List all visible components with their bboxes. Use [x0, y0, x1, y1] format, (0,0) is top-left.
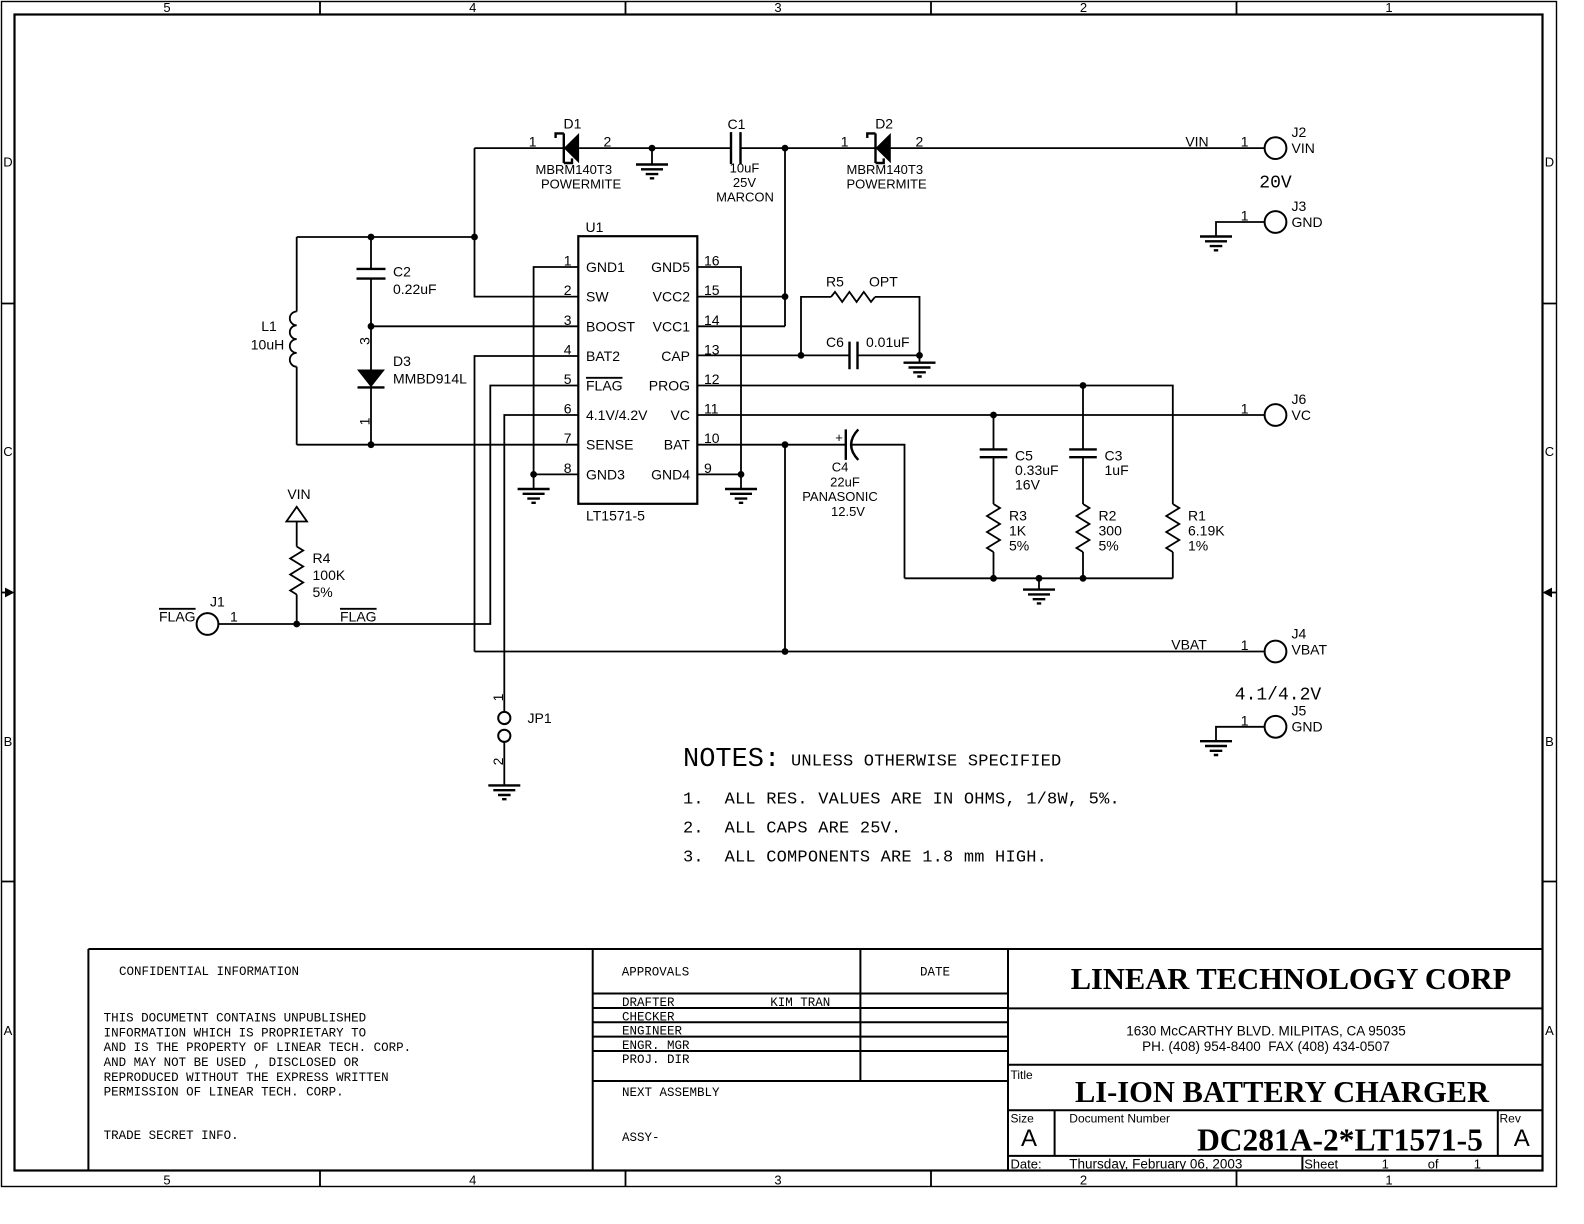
svg-text:4: 4 [469, 0, 476, 15]
svg-text:4: 4 [469, 1173, 476, 1188]
svg-text:Rev: Rev [1500, 1112, 1521, 1126]
svg-text:Date:: Date: [1011, 1156, 1042, 1171]
svg-text:MBRM140T3: MBRM140T3 [847, 162, 924, 177]
power port VIN [286, 486, 310, 547]
svg-text:J5: J5 [1292, 703, 1307, 719]
connector J6 [1241, 391, 1311, 426]
wire JP1 to ground [503, 742, 505, 786]
svg-text:Document Number: Document Number [1069, 1112, 1170, 1126]
svg-text:C: C [1545, 444, 1554, 459]
svg-text:6.19K: 6.19K [1188, 523, 1225, 539]
jumper JP1 [490, 693, 552, 765]
svg-text:DATE: DATE [920, 966, 950, 980]
svg-text:NEXT ASSEMBLY: NEXT ASSEMBLY [622, 1086, 720, 1100]
wire top rail left drop to SW [475, 148, 579, 297]
svg-text:BAT: BAT [664, 437, 691, 453]
svg-text:GND4: GND4 [651, 466, 690, 482]
svg-text:2: 2 [1080, 1173, 1087, 1188]
capacitor C6 [826, 334, 910, 369]
svg-text:TRADE SECRET INFO.: TRADE SECRET INFO. [104, 1129, 239, 1143]
svg-text:1uF: 1uF [1105, 462, 1129, 478]
svg-text:VC: VC [671, 407, 690, 423]
connector J1 [159, 594, 238, 635]
wire VBAT line to J4 [475, 651, 1266, 653]
svg-text:VCC1: VCC1 [653, 318, 691, 334]
svg-text:25V: 25V [733, 175, 756, 190]
svg-text:1: 1 [1241, 637, 1249, 653]
svg-text:2: 2 [604, 134, 612, 150]
svg-text:BOOST: BOOST [586, 318, 635, 334]
svg-text:AND IS THE PROPERTY OF LINEAR: AND IS THE PROPERTY OF LINEAR TECH. CORP… [104, 1041, 412, 1055]
node junction C3 top on PROG [1080, 382, 1087, 389]
svg-text:MMBD914L: MMBD914L [393, 371, 467, 387]
svg-text:VCC2: VCC2 [653, 289, 691, 305]
svg-text:VIN: VIN [1292, 140, 1315, 156]
svg-text:J2: J2 [1292, 124, 1307, 140]
svg-text:1: 1 [230, 609, 238, 625]
svg-text:1: 1 [490, 693, 506, 701]
wire VBAT drop [784, 445, 786, 652]
approvals table text [622, 966, 950, 1146]
diode D2 [841, 116, 927, 192]
svg-text:POWERMITE: POWERMITE [541, 177, 621, 192]
svg-text:PERMISSION OF LINEAR TECH. COR: PERMISSION OF LINEAR TECH. CORP. [104, 1086, 344, 1100]
svg-text:16V: 16V [1015, 477, 1041, 493]
ground at top rail [636, 148, 668, 178]
svg-text:VBAT: VBAT [1292, 641, 1328, 657]
svg-text:INFORMATION WHICH IS PROPRIETA: INFORMATION WHICH IS PROPRIETARY TO [104, 1026, 367, 1040]
svg-text:PROJ. DIR: PROJ. DIR [622, 1053, 690, 1067]
wire pin16 GND5 net [697, 267, 741, 474]
svg-text:MARCON: MARCON [716, 190, 774, 205]
svg-text:GND: GND [1292, 214, 1323, 230]
svg-text:FLAG: FLAG [159, 609, 196, 625]
node junction GND4 [738, 471, 745, 478]
ground at divider rail [1023, 578, 1055, 603]
svg-text:KIM TRAN: KIM TRAN [770, 996, 830, 1010]
node junction VBAT drop [782, 648, 789, 655]
svg-text:J1: J1 [210, 594, 225, 610]
svg-text:2: 2 [916, 134, 924, 150]
svg-text:R3: R3 [1009, 508, 1027, 524]
resistor R4 [290, 547, 346, 625]
node junction R5/C6 left [798, 352, 805, 359]
svg-text:2. ALL CAPS ARE 25V.: 2. ALL CAPS ARE 25V. [683, 820, 901, 839]
svg-text:SW: SW [586, 289, 609, 305]
svg-text:PROG: PROG [649, 378, 690, 394]
svg-text:of: of [1428, 1156, 1439, 1171]
svg-text:BAT2: BAT2 [586, 348, 620, 364]
svg-text:R4: R4 [313, 550, 331, 566]
svg-text:THIS DOCUMETNT CONTAINS UNPUBL: THIS DOCUMETNT CONTAINS UNPUBLISHED [104, 1012, 367, 1026]
svg-text:ASSY-: ASSY- [622, 1131, 660, 1145]
capacitor C3 [1069, 386, 1128, 505]
svg-text:R2: R2 [1099, 508, 1117, 524]
capacitor C2 [357, 237, 437, 370]
svg-text:1K: 1K [1009, 523, 1027, 539]
capacitor C4 [802, 429, 878, 518]
svg-text:1%: 1% [1188, 538, 1208, 554]
svg-text:D2: D2 [875, 116, 893, 132]
svg-text:R5: R5 [826, 274, 844, 290]
svg-text:D1: D1 [564, 116, 582, 132]
svg-text:OPT: OPT [869, 274, 898, 290]
svg-text:VIN: VIN [1185, 134, 1208, 150]
ground at U1 left [518, 474, 550, 502]
wire VCC drop to pins 15/14 [697, 148, 785, 326]
svg-text:FLAG: FLAG [586, 378, 623, 394]
svg-text:FLAG: FLAG [340, 609, 377, 625]
capacitor C1 [716, 116, 774, 205]
resistor R3 [987, 504, 1029, 578]
wire ground rail bottom [905, 577, 1173, 579]
svg-text:ENGINEER: ENGINEER [622, 1025, 683, 1039]
node junction VCC2 pin15 [782, 293, 789, 300]
svg-text:JP1: JP1 [528, 710, 552, 726]
svg-text:300: 300 [1099, 523, 1123, 539]
resistor R5 [801, 274, 920, 356]
connector J4 [1241, 626, 1328, 663]
svg-text:J6: J6 [1292, 391, 1307, 407]
wire VIN top rail [475, 147, 1266, 149]
svg-text:1: 1 [529, 134, 537, 150]
svg-text:1: 1 [1385, 0, 1392, 15]
svg-text:LT1571-5: LT1571-5 [586, 508, 645, 524]
svg-text:Title: Title [1011, 1068, 1034, 1082]
capacitor C5 [980, 415, 1059, 504]
svg-text:5%: 5% [1009, 538, 1029, 554]
svg-text:10uH: 10uH [251, 337, 284, 353]
svg-text:APPROVALS: APPROVALS [622, 966, 690, 980]
svg-text:3: 3 [357, 337, 373, 345]
svg-text:0.01uF: 0.01uF [866, 334, 910, 350]
node junction D3 bottom on SENSE [368, 441, 375, 448]
svg-text:U1: U1 [586, 219, 604, 235]
svg-text:2: 2 [564, 282, 572, 298]
svg-text:A: A [1021, 1125, 1037, 1152]
svg-text:C6: C6 [826, 334, 844, 350]
wire J5 ground stub [1216, 727, 1265, 741]
wire branch to C2/L1 [297, 236, 475, 238]
svg-text:C2: C2 [393, 264, 411, 280]
svg-text:ENGR. MGR: ENGR. MGR [622, 1039, 690, 1053]
svg-text:1: 1 [1241, 401, 1249, 417]
wire pin4 BAT2 net [475, 356, 579, 652]
node junction R4 bottom on FLAG wire [293, 621, 300, 628]
wire J3 ground stub [1216, 222, 1265, 237]
svg-text:LI-ION BATTERY CHARGER: LI-ION BATTERY CHARGER [1075, 1075, 1490, 1109]
svg-text:GND: GND [1292, 718, 1323, 734]
svg-text:3: 3 [774, 1173, 781, 1188]
svg-text:Thursday, February 06, 2003: Thursday, February 06, 2003 [1069, 1156, 1242, 1171]
svg-text:B: B [4, 734, 13, 749]
confidential information text [104, 965, 412, 1143]
svg-text:C: C [3, 444, 12, 459]
node junction BAT/VBAT [782, 441, 789, 448]
svg-text:1: 1 [841, 134, 849, 150]
svg-text:1630 McCARTHY BLVD. MILPITAS,: 1630 McCARTHY BLVD. MILPITAS, CA 95035 [1126, 1024, 1406, 1039]
svg-text:R1: R1 [1188, 508, 1206, 524]
svg-text:SENSE: SENSE [586, 437, 633, 453]
ground at JP1 [488, 785, 520, 799]
node junction R2 bottom [1080, 575, 1087, 582]
svg-text:GND5: GND5 [651, 259, 690, 275]
wire pin6 4.1V net to JP1 [504, 415, 578, 712]
inductor L1 [251, 237, 297, 445]
wire pin5 FLAG net [218, 386, 579, 625]
svg-text:DRAFTER: DRAFTER [622, 996, 675, 1010]
svg-text:100K: 100K [313, 567, 346, 583]
svg-text:5: 5 [163, 0, 170, 15]
svg-text:A: A [1545, 1023, 1554, 1038]
wire pin3 BOOST [371, 325, 578, 327]
node junction C2 top [368, 234, 375, 241]
svg-text:D: D [1545, 155, 1554, 170]
svg-text:MBRM140T3: MBRM140T3 [536, 162, 613, 177]
connector J3 [1241, 198, 1323, 233]
svg-text:4.1V/4.2V: 4.1V/4.2V [586, 407, 648, 423]
node junction BOOST tap [368, 323, 375, 330]
svg-text:J4: J4 [1292, 626, 1307, 642]
wire pin10 BAT [697, 444, 846, 446]
resistor R1 [1166, 504, 1225, 578]
IC U1 LT1571-5 [564, 219, 720, 524]
svg-text:0.22uF: 0.22uF [393, 281, 437, 297]
svg-text:1: 1 [1385, 1173, 1392, 1188]
net label FLAG mid-wire [340, 609, 377, 625]
svg-text:LINEAR TECHNOLOGY CORP: LINEAR TECHNOLOGY CORP [1071, 962, 1512, 996]
svg-text:5%: 5% [313, 584, 333, 600]
node junction gnd stem [1036, 575, 1043, 582]
svg-text:POWERMITE: POWERMITE [847, 177, 927, 192]
node junction VCC branch on rail [782, 145, 789, 152]
svg-text:Sheet: Sheet [1304, 1156, 1338, 1171]
svg-text:22uF: 22uF [830, 474, 860, 489]
svg-text:Size: Size [1011, 1112, 1035, 1126]
svg-text:14: 14 [704, 312, 720, 328]
svg-text:A: A [1514, 1125, 1530, 1152]
svg-text:4.1/4.2V: 4.1/4.2V [1235, 686, 1322, 706]
node junction ground stub on rail [649, 145, 656, 152]
svg-text:1: 1 [1241, 208, 1249, 224]
svg-text:AND MAY NOT BE USED , DISCLOSE: AND MAY NOT BE USED , DISCLOSED OR [104, 1056, 360, 1070]
svg-text:C1: C1 [728, 116, 746, 132]
svg-text:UNLESS OTHERWISE SPECIFIED: UNLESS OTHERWISE SPECIFIED [791, 753, 1061, 772]
connector J2 [1241, 124, 1315, 159]
svg-text:D3: D3 [393, 353, 411, 369]
ground at J3 [1200, 237, 1232, 251]
ground at J5 [1200, 741, 1232, 755]
svg-text:L1: L1 [261, 318, 277, 334]
wire pin1 GND1 net [534, 267, 579, 474]
wire pin9 GND4 stub [697, 473, 741, 475]
connector J5 [1241, 703, 1323, 738]
svg-text:PH. (408) 954-8400 FAX (408): PH. (408) 954-8400 FAX (408) 434-0507 [1142, 1039, 1390, 1054]
svg-text:2: 2 [1080, 0, 1087, 15]
svg-text:NOTES:: NOTES: [683, 745, 780, 775]
svg-text:A: A [4, 1023, 13, 1038]
node junction GND3 [530, 471, 537, 478]
svg-text:CONFIDENTIAL INFORMATION: CONFIDENTIAL INFORMATION [119, 965, 299, 979]
svg-text:1. ALL RES. VALUES ARE IN OHM: 1. ALL RES. VALUES ARE IN OHMS, 1/8W, 5%… [683, 791, 1120, 810]
wire pin12 PROG net [697, 386, 1173, 505]
node junction C5 top on VC [990, 412, 997, 419]
svg-text:1: 1 [1241, 712, 1249, 728]
svg-text:20V: 20V [1259, 174, 1292, 194]
svg-text:CHECKER: CHECKER [622, 1010, 675, 1024]
svg-text:+: + [835, 430, 843, 445]
notes text [683, 745, 1120, 868]
wire pin13 CAP [697, 354, 919, 356]
ground at U1 right [725, 474, 757, 502]
resistor R2 [1077, 504, 1123, 578]
svg-text:1: 1 [1474, 1156, 1481, 1171]
node junction R3 bottom [990, 575, 997, 582]
svg-text:GND1: GND1 [586, 259, 625, 275]
svg-text:J3: J3 [1292, 198, 1307, 214]
node junction top-left vertical / C2-L1 branch [471, 234, 478, 241]
svg-text:12.5V: 12.5V [831, 504, 865, 519]
svg-text:5%: 5% [1099, 538, 1119, 554]
svg-text:1: 1 [1241, 134, 1249, 150]
svg-text:VC: VC [1292, 407, 1311, 423]
title block outline [88, 949, 1542, 1171]
svg-text:D: D [3, 155, 12, 170]
svg-text:DC281A-2*LT1571-5: DC281A-2*LT1571-5 [1197, 1123, 1483, 1158]
svg-text:REPRODUCED WITHOUT THE EXPRESS: REPRODUCED WITHOUT THE EXPRESS WRITTEN [104, 1071, 389, 1085]
svg-text:15: 15 [704, 282, 720, 298]
svg-text:CAP: CAP [661, 348, 690, 364]
diode D3 [357, 337, 468, 445]
svg-text:VBAT: VBAT [1171, 637, 1207, 653]
ground at C6 [904, 355, 936, 376]
wire C4 right to ground rail [852, 445, 905, 579]
wire pin11 VC net [697, 414, 1265, 416]
node junction R5/C6 right [916, 352, 923, 359]
svg-text:3. ALL COMPONENTS ARE 1.8 mm: 3. ALL COMPONENTS ARE 1.8 mm HIGH. [683, 849, 1047, 868]
svg-text:3: 3 [774, 0, 781, 15]
svg-text:1: 1 [357, 417, 373, 425]
svg-text:1: 1 [1382, 1156, 1389, 1171]
svg-text:10uF: 10uF [730, 161, 760, 176]
svg-text:5: 5 [163, 1173, 170, 1188]
wire pin8 GND3 stub [534, 473, 579, 475]
svg-text:PANASONIC: PANASONIC [802, 489, 878, 504]
svg-text:B: B [1545, 734, 1554, 749]
svg-text:GND3: GND3 [586, 466, 625, 482]
diode D1 [529, 116, 622, 192]
svg-text:VIN: VIN [287, 486, 310, 502]
svg-text:C4: C4 [832, 460, 849, 475]
wire pin7 SENSE [297, 444, 579, 446]
